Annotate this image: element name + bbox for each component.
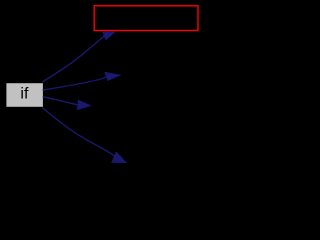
edge 1: arrowhead xyxy=(103,32,115,40)
svg-text:if: if xyxy=(20,85,29,102)
node: red target box (top right) xyxy=(94,6,198,31)
edge 2: wire xyxy=(43,77,107,91)
edge 2: arrowhead xyxy=(105,72,120,80)
edge 1: if to red box, wire xyxy=(42,36,104,82)
call graph diagram xyxy=(0,0,205,189)
edge 3: arrowhead xyxy=(78,100,91,109)
node if: gray box xyxy=(6,83,44,108)
edge 4: curved wire xyxy=(42,108,115,157)
edge 3: wire xyxy=(43,97,78,105)
edge 4: arrowhead xyxy=(112,152,126,162)
